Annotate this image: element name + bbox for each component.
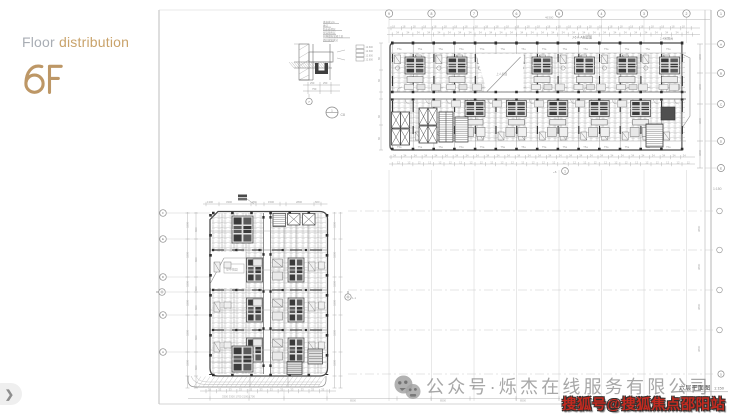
svg-text:1-1: 1-1 (352, 296, 356, 300)
svg-text:18: 18 (465, 24, 468, 28)
svg-text:3800: 3800 (697, 345, 701, 352)
svg-text:34: 34 (406, 31, 409, 35)
svg-text:T5a: T5a (542, 145, 547, 149)
building B corridor walls (390, 91, 686, 93)
svg-text:34: 34 (497, 153, 500, 157)
svg-text:34: 34 (610, 153, 613, 157)
building A row walls (211, 250, 328, 330)
svg-text:34: 34 (603, 31, 606, 35)
svg-text:12: 12 (501, 160, 504, 164)
building B elevator bank left (392, 112, 410, 145)
svg-text:2.4米阳台: 2.4米阳台 (660, 36, 673, 41)
svg-text:T5a: T5a (418, 47, 423, 51)
building A terrace (211, 252, 247, 288)
building B furniture clusters top row (405, 57, 680, 90)
svg-text:T5a: T5a (521, 47, 526, 51)
svg-text:12.600: 12.600 (366, 50, 374, 53)
svg-text:18: 18 (392, 24, 395, 28)
svg-text:3300: 3300 (186, 360, 190, 366)
svg-text:12.600: 12.600 (366, 46, 374, 49)
svg-text:34: 34 (414, 153, 417, 157)
svg-text:12: 12 (459, 160, 462, 164)
svg-text:34: 34 (551, 31, 554, 35)
svg-text:40厚细石混凝土层: 40厚细石混凝土层 (323, 34, 344, 38)
svg-text:660: 660 (194, 305, 198, 310)
watermark text (426, 373, 711, 399)
building B bath fixtures (395, 55, 670, 70)
svg-text:18: 18 (444, 24, 447, 28)
svg-text:18: 18 (661, 24, 664, 28)
svg-text:A: A (162, 350, 164, 354)
svg-text:18: 18 (537, 24, 540, 28)
svg-text:34: 34 (548, 153, 551, 157)
building B furniture clusters bottom row (465, 101, 651, 137)
svg-text:34: 34 (613, 31, 616, 35)
svg-text:防水卷材层: 防水卷材层 (323, 27, 336, 31)
svg-text:34: 34 (569, 153, 572, 157)
svg-text:18: 18 (609, 24, 612, 28)
building B column dots (391, 42, 686, 45)
svg-text:8500: 8500 (350, 399, 356, 403)
svg-text:12: 12 (594, 160, 597, 164)
svg-text:12: 12 (480, 160, 483, 164)
svg-text:3300: 3300 (186, 222, 190, 228)
svg-text:18: 18 (599, 24, 602, 28)
watermark wechat logo (393, 375, 427, 405)
svg-text:34: 34 (455, 153, 458, 157)
svg-text:34: 34 (466, 153, 469, 157)
svg-text:3300: 3300 (186, 330, 190, 336)
svg-text:7: 7 (473, 12, 475, 16)
svg-text:33: 33 (321, 387, 324, 391)
svg-text:34: 34 (582, 31, 585, 35)
svg-text:1:150: 1:150 (713, 187, 722, 191)
svg-text:J-6 A-A剖面图: J-6 A-A剖面图 (572, 35, 592, 40)
detail ref circle C8 (326, 107, 338, 118)
svg-text:保温隔热层: 保温隔热层 (323, 31, 336, 35)
svg-text:3300: 3300 (186, 281, 190, 287)
svg-text:12: 12 (635, 160, 638, 164)
svg-text:T5a: T5a (645, 47, 650, 51)
svg-text:12: 12 (563, 160, 566, 164)
detail dimension lines (294, 44, 345, 94)
svg-text:T5a: T5a (604, 47, 609, 51)
extended column grid lines (389, 170, 687, 401)
svg-text:34: 34 (489, 31, 492, 35)
building A canopy curves (188, 376, 326, 387)
svg-text:34: 34 (520, 31, 523, 35)
svg-text:12: 12 (407, 160, 410, 164)
svg-text:34: 34 (469, 31, 472, 35)
svg-text:18: 18 (423, 24, 426, 28)
building B grid bubbles row (385, 10, 724, 43)
svg-text:34: 34 (427, 31, 430, 35)
svg-text:34: 34 (434, 153, 437, 157)
svg-text:3800: 3800 (698, 84, 702, 90)
svg-text:450: 450 (252, 200, 257, 204)
svg-text:18: 18 (527, 24, 530, 28)
building B right bubbles (705, 41, 725, 172)
building B wall poche chunks (393, 54, 683, 134)
svg-text:66: 66 (377, 79, 381, 82)
svg-text:12: 12 (418, 160, 421, 164)
svg-text:18: 18 (516, 24, 519, 28)
building B dark shaft right (661, 107, 675, 120)
svg-text:T5a: T5a (583, 47, 588, 51)
svg-text:34: 34 (510, 31, 513, 35)
svg-text:34: 34 (486, 153, 489, 157)
building B bottom dim rows (389, 155, 695, 166)
building B left dim strip (379, 43, 383, 150)
svg-text:34: 34 (424, 153, 427, 157)
svg-text:T5a: T5a (418, 145, 423, 149)
svg-text:18: 18 (640, 24, 643, 28)
svg-text:12: 12 (428, 160, 431, 164)
svg-text:18: 18 (672, 24, 675, 28)
svg-text:5: 5 (558, 12, 560, 16)
svg-text:34: 34 (579, 153, 582, 157)
svg-text:33: 33 (301, 387, 304, 391)
building A left grid bubbles (160, 210, 210, 356)
svg-text:T5a: T5a (438, 145, 443, 149)
svg-text:18: 18 (433, 24, 436, 28)
svg-text:3300: 3300 (333, 300, 337, 306)
svg-text:8: 8 (431, 12, 433, 16)
svg-text:34: 34 (673, 153, 676, 157)
sohu red watermark (562, 393, 725, 414)
svg-text:34: 34 (644, 31, 647, 35)
svg-text:66: 66 (377, 115, 381, 118)
svg-text:T5a: T5a (563, 47, 568, 51)
svg-text:12: 12 (449, 160, 452, 164)
building A bottom row interior (232, 346, 253, 372)
sheet left border (158, 10, 160, 404)
building A interior texture (212, 213, 326, 374)
detail level table (356, 45, 364, 61)
building B elevator bank 2 (419, 108, 437, 143)
svg-text:660: 660 (194, 257, 198, 262)
svg-text:12: 12 (656, 160, 659, 164)
svg-text:3300: 3300 (186, 252, 190, 258)
svg-text:T5a: T5a (480, 47, 485, 51)
svg-text:12: 12 (604, 160, 607, 164)
svg-text:上人屋面: 上人屋面 (496, 72, 507, 76)
svg-text:660: 660 (194, 227, 198, 232)
svg-text:1: 1 (564, 169, 566, 173)
building B interior texture top row (391, 53, 685, 92)
sheet bottom border (159, 403, 711, 405)
building A wall poche chunks (212, 250, 322, 330)
svg-text:34: 34 (403, 153, 406, 157)
svg-text:66: 66 (377, 137, 381, 140)
svg-text:34: 34 (479, 31, 482, 35)
svg-text:12: 12 (470, 160, 473, 164)
sheet top border (159, 9, 711, 11)
svg-text:12: 12 (573, 160, 576, 164)
svg-text:2800: 2800 (296, 200, 302, 204)
svg-text:34: 34 (448, 31, 451, 35)
building A corridor strip (264, 213, 271, 374)
svg-text:C8: C8 (341, 113, 345, 117)
svg-text:18: 18 (496, 24, 499, 28)
svg-text:3300: 3300 (226, 200, 232, 204)
svg-text:34: 34 (559, 153, 562, 157)
svg-text:34: 34 (437, 31, 440, 35)
building B interior texture bottom row (391, 99, 685, 141)
svg-text:250: 250 (323, 81, 328, 85)
building B overall dim line (389, 19, 710, 21)
svg-text:12.600: 12.600 (366, 54, 374, 57)
svg-text:3800: 3800 (698, 54, 702, 60)
svg-text:E: E (162, 237, 164, 241)
svg-text:F: F (162, 211, 164, 215)
svg-text:12: 12 (552, 160, 555, 164)
svg-text:18: 18 (651, 24, 654, 28)
svg-text:34: 34 (528, 153, 531, 157)
svg-text:12: 12 (583, 160, 586, 164)
building B stair right (646, 124, 663, 147)
building A top row cluster (232, 216, 253, 243)
svg-text:3300: 3300 (333, 281, 337, 287)
svg-text:33: 33 (249, 387, 252, 391)
right mid tick texts (697, 225, 701, 352)
extended row grid dashed lines (348, 211, 713, 374)
svg-text:18: 18 (682, 24, 685, 28)
building B unit partition walls (393, 53, 683, 141)
svg-text:12: 12 (677, 160, 680, 164)
svg-text:33: 33 (229, 387, 232, 391)
svg-text:8500: 8500 (520, 399, 526, 403)
svg-text:18: 18 (589, 24, 592, 28)
svg-text:8500: 8500 (440, 399, 446, 403)
building B top bay strip (390, 43, 686, 53)
building A left small fixtures (214, 262, 231, 352)
building B mid fixtures (432, 84, 679, 107)
svg-text:34: 34 (676, 31, 679, 35)
svg-text:12: 12 (542, 160, 545, 164)
svg-text:34: 34 (396, 31, 399, 35)
svg-text:12: 12 (490, 160, 493, 164)
svg-text:660: 660 (194, 335, 198, 340)
building A top label (238, 195, 247, 198)
detail grid bubble (308, 94, 310, 99)
svg-text:T5a: T5a (666, 145, 671, 149)
svg-text:18: 18 (475, 24, 478, 28)
svg-text:1: 1 (720, 12, 722, 16)
svg-text:12: 12 (614, 160, 617, 164)
svg-text:18: 18 (578, 24, 581, 28)
building B top terrace void (476, 54, 524, 92)
building A elevators top right (288, 214, 316, 226)
svg-text:3300: 3300 (333, 222, 337, 228)
building A stair bottom dark (287, 362, 302, 375)
svg-text:1300: 1300 (207, 200, 213, 204)
svg-text:12: 12 (521, 160, 524, 164)
building B lower bath fixtures (395, 132, 670, 140)
svg-text:9: 9 (388, 12, 390, 16)
svg-text:12: 12 (397, 160, 400, 164)
building B right wing (682, 54, 690, 128)
svg-text:T5a: T5a (604, 145, 609, 149)
detail drawing body (294, 44, 333, 80)
svg-text:750: 750 (312, 87, 317, 91)
svg-text:34: 34 (476, 153, 479, 157)
floor label 6F (22, 60, 72, 100)
svg-text:⌐6: ⌐6 (553, 170, 557, 174)
svg-text:18: 18 (630, 24, 633, 28)
building B right dim strip (697, 44, 703, 168)
svg-text:18: 18 (454, 24, 457, 28)
svg-text:3300: 3300 (186, 300, 190, 306)
svg-text:T5a: T5a (397, 47, 402, 51)
svg-text:12: 12 (666, 160, 669, 164)
building B center mark below (562, 168, 569, 175)
svg-text:E: E (720, 166, 722, 170)
svg-text:34: 34 (572, 31, 575, 35)
svg-text:18: 18 (547, 24, 550, 28)
svg-text:34: 34 (458, 31, 461, 35)
svg-text:34: 34 (531, 31, 534, 35)
title circled mark (718, 371, 724, 377)
svg-text:3300: 3300 (333, 330, 337, 336)
svg-text:34: 34 (562, 31, 565, 35)
detail legend text block (323, 24, 350, 42)
svg-text:34: 34 (590, 153, 593, 157)
svg-text:34: 34 (507, 153, 510, 157)
building A mech block right (308, 349, 323, 364)
svg-text:面层建筑做法: 面层建筑做法 (323, 38, 339, 42)
svg-text:T5a: T5a (666, 47, 671, 51)
svg-text:T5a: T5a (397, 145, 402, 149)
svg-text:34: 34 (624, 31, 627, 35)
svg-text:墙身做法A: 墙身做法A (323, 20, 335, 24)
svg-text:34: 34 (417, 31, 420, 35)
svg-text:34: 34 (631, 153, 634, 157)
svg-text:660: 660 (194, 365, 198, 370)
svg-text:34: 34 (665, 31, 668, 35)
svg-text:600: 600 (315, 200, 320, 204)
svg-text:33: 33 (290, 387, 293, 391)
svg-text:33: 33 (280, 387, 283, 391)
building B upper dim rows (387, 26, 700, 37)
svg-text:34: 34 (593, 31, 596, 35)
carousel chevron pill (0, 383, 22, 405)
svg-text:34: 34 (541, 31, 544, 35)
svg-text:12.600: 12.600 (366, 59, 374, 62)
building A section mark left (159, 289, 166, 296)
svg-text:B: B (720, 71, 722, 75)
svg-text:T5a: T5a (542, 47, 547, 51)
svg-text:33: 33 (260, 387, 263, 391)
svg-text:18: 18 (620, 24, 623, 28)
svg-text:34: 34 (662, 153, 665, 157)
svg-text:34: 34 (634, 31, 637, 35)
svg-text:34: 34 (686, 31, 689, 35)
panel heading Floor distribution (22, 34, 129, 50)
svg-text:T5a: T5a (459, 145, 464, 149)
building B stair left (439, 112, 453, 142)
svg-text:3800: 3800 (697, 225, 701, 232)
svg-text:T5a: T5a (438, 47, 443, 51)
svg-text:B: B (162, 313, 164, 317)
svg-text:T5a: T5a (563, 145, 568, 149)
svg-text:3800: 3800 (697, 263, 701, 270)
svg-text:12: 12 (511, 160, 514, 164)
svg-text:T5a: T5a (625, 47, 630, 51)
svg-text:660: 660 (194, 286, 198, 291)
svg-text:34: 34 (652, 153, 655, 157)
svg-text:3300 3300 1700 2100 1700: 3300 3300 1700 2100 1700 (222, 395, 255, 399)
building A bottom dim rows (188, 389, 560, 401)
building A interior walls vertical (222, 213, 318, 374)
building A corridor-side fixtures (253, 259, 283, 360)
section mark right of building A (345, 294, 351, 300)
svg-text:12: 12 (532, 160, 535, 164)
svg-text:12: 12 (438, 160, 441, 164)
building A right dim strip (333, 212, 343, 388)
svg-text:1:150: 1:150 (714, 386, 725, 391)
svg-text:34: 34 (393, 153, 396, 157)
svg-text:12: 12 (645, 160, 648, 164)
svg-text:18: 18 (402, 24, 405, 28)
svg-text:3300: 3300 (333, 252, 337, 258)
building A column dots (209, 214, 212, 375)
svg-text:34: 34 (600, 153, 603, 157)
sheet right borders (704, 10, 706, 404)
svg-text:18: 18 (506, 24, 509, 28)
svg-text:250: 250 (310, 81, 315, 85)
svg-text:12: 12 (625, 160, 628, 164)
svg-text:33: 33 (239, 387, 242, 391)
svg-text:3: 3 (643, 12, 645, 16)
svg-text:T5a: T5a (501, 145, 506, 149)
building A stair top (273, 214, 286, 227)
svg-text:66: 66 (377, 57, 381, 60)
svg-text:做法: 做法 (323, 23, 329, 27)
svg-text:T5a: T5a (583, 145, 588, 149)
svg-text:18: 18 (558, 24, 561, 28)
svg-text:6: 6 (516, 12, 518, 16)
svg-text:34: 34 (641, 153, 644, 157)
svg-text:34: 34 (538, 153, 541, 157)
svg-text:46300: 46300 (545, 16, 554, 20)
svg-text:33: 33 (311, 387, 314, 391)
building A top dim row (203, 202, 328, 206)
svg-text:3800: 3800 (698, 150, 702, 156)
svg-text:18: 18 (485, 24, 488, 28)
svg-text:34: 34 (517, 153, 520, 157)
svg-text:33: 33 (218, 387, 221, 391)
svg-text:3800: 3800 (697, 303, 701, 310)
svg-text:2: 2 (686, 12, 688, 16)
building B outer wall (390, 43, 682, 150)
svg-text:T5a: T5a (480, 145, 485, 149)
svg-text:34: 34 (683, 153, 686, 157)
svg-text:34: 34 (445, 153, 448, 157)
svg-text:T5a: T5a (625, 145, 630, 149)
building B door arcs (397, 87, 679, 104)
building A left dim strip (186, 212, 199, 388)
svg-text:4: 4 (601, 12, 603, 16)
svg-text:T5a: T5a (459, 47, 464, 51)
building A right small fixtures (309, 262, 325, 351)
svg-text:18: 18 (413, 24, 416, 28)
svg-text:34: 34 (621, 153, 624, 157)
building A outer wall (210, 212, 328, 377)
svg-text:33: 33 (270, 387, 273, 391)
building B stair left 2 (455, 117, 468, 142)
svg-text:34: 34 (655, 31, 658, 35)
